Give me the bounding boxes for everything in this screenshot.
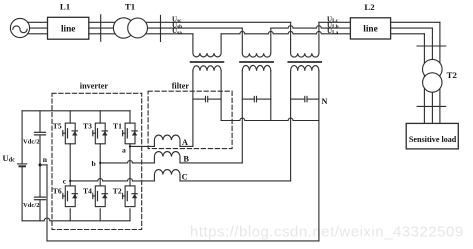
capacitor Vdc/2 upper [35,111,46,165]
transformer T2 [423,59,443,92]
wire phase c T1 to corner (Usc line) [145,21,291,23]
line impedance L1 [48,17,89,39]
wire load drop b [431,28,433,123]
wire inverter b to inductor B with hop over T1/T2 leg [100,160,154,162]
filter inductor A [154,135,180,146]
wire phase a source to L1 [28,33,48,35]
filter inductor B [154,152,180,163]
wire phase b source to L1 [30,27,48,29]
inverter dashed box [52,93,142,229]
wire load drop a [423,34,425,124]
breaker tick 2 [160,15,162,41]
battery Udc [18,111,27,221]
svg-text:B: B [183,154,189,163]
wire phase b T1 to B transformer (Usb line) with hops [145,27,242,29]
breaker tick 4 [417,105,446,107]
svg-text:T1: T1 [113,122,122,131]
svg-text:line: line [61,24,75,34]
injection transformer B secondary [242,65,271,70]
svg-text:A: A [182,138,188,147]
capacitor Vdc/2 lower [35,165,46,221]
svg-text:T6: T6 [53,186,62,195]
svg-text:T5: T5 [53,122,62,131]
svg-text:T4: T4 [83,186,92,195]
IGBT switch T4 [93,186,108,207]
neutral return vertical [46,165,48,241]
AC source G1 [10,18,29,37]
transformer T1 [113,18,147,38]
wire Usc continuation C to L2 [319,21,440,23]
svg-text:n: n [43,155,48,164]
injection transformer C core [288,61,321,63]
injection transformer A core [191,61,224,63]
inverter leg wire T3/T4 [99,111,101,221]
svg-text:Udc: Udc [3,154,16,164]
IGBT switch T6 [63,186,78,207]
injection transformer A secondary [193,66,221,71]
svg-text:https://blog.csdn.net/weixin_4: https://blog.csdn.net/weixin_43322509 [190,224,464,241]
breaker tick 1 [100,15,102,41]
svg-text:filter: filter [172,82,190,91]
IGBT switch T5 [63,123,78,144]
svg-text:T2: T2 [113,186,122,195]
svg-text:Vdc/2: Vdc/2 [23,202,40,209]
wire Usa continuation A to L2 with hops over B and C legs [221,31,424,33]
wire inverter a to inductor A [130,145,154,147]
wire C secondary right leg through N bus down to return [318,71,320,241]
inverter leg wire T5/T6 [69,111,71,221]
svg-text:line: line [363,25,377,35]
neutral return bottom wire [47,240,319,242]
svg-text:a: a [122,145,126,154]
svg-text:T1: T1 [125,2,135,12]
inverter leg wire T1/T2 [129,111,131,221]
svg-text:inverter: inverter [80,81,109,90]
wire A secondary right leg to N bus [220,71,222,121]
node b [99,162,101,164]
wire n to neutral return [40,164,47,166]
breaker tick 3 [417,45,446,47]
svg-text:N: N [322,97,328,106]
wire phase a L1 to T1 [89,33,116,35]
sensitive load box [406,123,458,148]
svg-text:Vdc/2: Vdc/2 [23,138,40,145]
filter capacitor B [242,96,270,101]
filter capacitor C [291,96,319,101]
DC negative rail with hop over neutral return [22,218,130,221]
node n [39,163,42,166]
wire Usb continuation B to L2 with hops over C legs [271,26,433,28]
wire phase c source to L1 [28,21,48,23]
wire B secondary right leg to N bus [270,71,272,121]
filter capacitor A [193,96,221,101]
wire phase b L1 to T1 [89,27,116,29]
svg-text:b: b [92,159,96,168]
wire A secondary left leg [192,71,194,147]
wire phase a T1 to A transformer (Usa line) [145,33,193,35]
injection transformer A primary [193,34,221,57]
svg-text:c: c [63,177,67,186]
wire phase c L1 to T1 [89,21,116,23]
line impedance L2 [350,18,390,39]
injection transformer C secondary [291,65,319,70]
IGBT switch T3 [93,123,108,144]
IGBT switch T1 [123,123,138,144]
N bus [221,118,319,120]
svg-text:T3: T3 [83,122,92,131]
node a [129,145,131,147]
wire load drop c [439,22,441,123]
filter inductor C [154,170,180,181]
svg-text:Sensitive load: Sensitive load [409,135,457,144]
wire inverter c to inductor C with hops over legs [70,178,154,180]
wire inductor A to transformer A [180,145,193,147]
svg-text:T2: T2 [447,70,458,80]
injection transformer C primary [291,22,319,57]
wire inductor C to transformer C [180,180,291,182]
svg-text:L1: L1 [60,1,70,11]
node c [69,180,71,182]
svg-text:L2: L2 [364,2,375,12]
filter dashed box [148,91,232,148]
IGBT switch T2 [123,186,138,207]
wire C secondary left leg [290,71,292,181]
DC positive rail [22,110,130,112]
injection transformer B core [240,61,273,63]
svg-text:C: C [182,173,188,182]
injection transformer B primary [242,28,271,57]
wire inductor B to transformer B [180,162,242,164]
wire B secondary left leg [241,71,243,163]
